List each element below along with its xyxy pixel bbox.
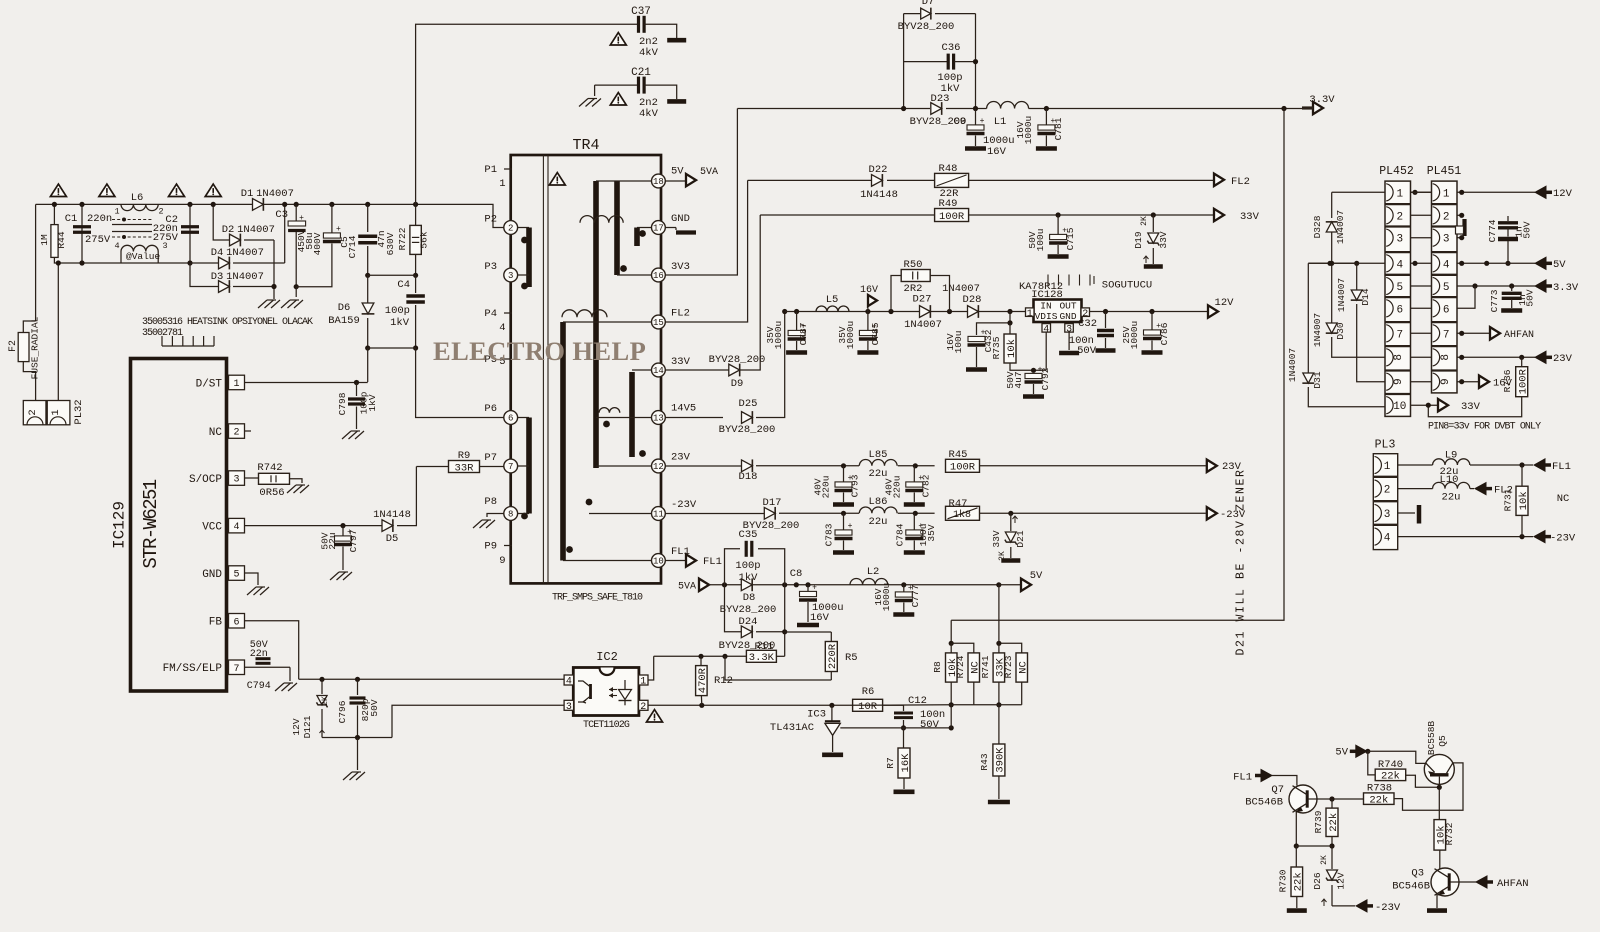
svg-text:OUT: OUT	[1059, 301, 1076, 312]
svg-text:D21 WILL BE -28V ZENER: D21 WILL BE -28V ZENER	[1235, 468, 1248, 655]
svg-text:6: 6	[233, 617, 239, 628]
svg-text:5VA: 5VA	[678, 582, 696, 593]
svg-text:L1: L1	[994, 116, 1007, 128]
svg-text:D6: D6	[338, 302, 351, 314]
svg-text:1N4007: 1N4007	[904, 319, 942, 331]
svg-text:1000u: 1000u	[845, 321, 856, 350]
svg-text:R742: R742	[257, 462, 282, 474]
svg-text:C36: C36	[942, 42, 961, 54]
svg-text:5V: 5V	[1553, 259, 1566, 271]
svg-text:R45: R45	[949, 449, 968, 461]
svg-text:100p: 100p	[385, 305, 410, 317]
svg-text:1N4007: 1N4007	[256, 188, 294, 200]
svg-text:R44: R44	[56, 231, 67, 248]
svg-text:1: 1	[233, 379, 239, 390]
svg-text:C773: C773	[1489, 289, 1500, 312]
svg-text:FL2: FL2	[671, 308, 690, 320]
svg-text:50V: 50V	[920, 719, 940, 731]
svg-text:4kV: 4kV	[639, 47, 659, 59]
svg-text:R48: R48	[939, 163, 958, 175]
svg-text:C3: C3	[275, 209, 288, 221]
svg-text:D24: D24	[739, 616, 758, 628]
svg-text:3: 3	[233, 475, 239, 486]
svg-text:5: 5	[1443, 282, 1450, 294]
svg-text:BYV28_200: BYV28_200	[709, 354, 766, 366]
svg-text:220n: 220n	[87, 213, 112, 225]
svg-text:C792: C792	[1040, 367, 1051, 390]
svg-text:D27: D27	[913, 294, 932, 306]
svg-text:3: 3	[1384, 509, 1391, 521]
svg-text:22u: 22u	[327, 532, 338, 549]
svg-text:9: 9	[1393, 378, 1405, 385]
svg-text:17: 17	[653, 224, 664, 234]
svg-text:VCC: VCC	[202, 521, 222, 533]
svg-text:33V: 33V	[1461, 401, 1481, 413]
svg-text:P6: P6	[484, 403, 497, 415]
svg-text:5VA: 5VA	[700, 167, 718, 178]
svg-text:1: 1	[499, 178, 505, 190]
svg-text:50V: 50V	[1525, 289, 1536, 306]
svg-text:9: 9	[499, 555, 505, 567]
svg-text:C1: C1	[65, 213, 78, 225]
svg-text:D7: D7	[922, 0, 935, 8]
svg-text:10: 10	[653, 557, 664, 567]
svg-text:7: 7	[233, 664, 239, 675]
svg-text:22n: 22n	[250, 649, 268, 660]
svg-text:2: 2	[233, 428, 239, 439]
svg-text:SOGUTUCU: SOGUTUCU	[1102, 280, 1152, 292]
svg-text:2K: 2K	[1140, 216, 1149, 226]
svg-text:220u: 220u	[821, 476, 832, 499]
svg-text:ELECTRO HELP: ELECTRO HELP	[433, 336, 646, 366]
svg-text:4: 4	[114, 241, 119, 251]
svg-text:12V: 12V	[291, 718, 302, 735]
svg-text:D14: D14	[1360, 288, 1371, 305]
svg-text:FB: FB	[209, 617, 223, 629]
svg-text:NC: NC	[1557, 493, 1570, 505]
svg-text:1N4007: 1N4007	[1336, 278, 1347, 312]
svg-text:R732: R732	[1444, 822, 1455, 845]
svg-text:TL431AC: TL431AC	[770, 722, 814, 734]
svg-text:BA159: BA159	[328, 315, 360, 327]
svg-text:+: +	[299, 214, 304, 223]
svg-text:4: 4	[233, 522, 239, 533]
svg-text:11: 11	[653, 510, 664, 520]
svg-text:C794: C794	[247, 681, 271, 692]
svg-text:5V: 5V	[1335, 747, 1348, 759]
svg-text:1kV: 1kV	[367, 394, 378, 411]
svg-text:+: +	[980, 117, 985, 126]
svg-text:1N4007: 1N4007	[226, 247, 264, 259]
svg-text:FUSE_RADIAL: FUSE_RADIAL	[30, 316, 41, 379]
svg-text:D9: D9	[731, 378, 744, 390]
svg-text:1: 1	[1384, 461, 1391, 473]
svg-text:1N4148: 1N4148	[373, 509, 411, 521]
svg-text:2K: 2K	[1320, 855, 1329, 865]
svg-text:L5: L5	[826, 294, 839, 306]
svg-text:R724: R724	[955, 655, 966, 678]
svg-text:C21: C21	[631, 67, 651, 79]
svg-text:2: 2	[158, 207, 163, 217]
svg-text:C796: C796	[337, 700, 348, 723]
svg-text:35V: 35V	[926, 524, 937, 541]
svg-text:16K: 16K	[900, 753, 912, 773]
svg-text:1: 1	[1027, 309, 1033, 320]
svg-text:4: 4	[499, 322, 505, 334]
svg-text:C786: C786	[1159, 322, 1170, 345]
svg-text:3: 3	[508, 271, 513, 281]
svg-text:1: 1	[1443, 188, 1450, 200]
svg-text:GND: GND	[1059, 311, 1076, 322]
svg-text:GND: GND	[671, 213, 690, 225]
svg-text:IC128: IC128	[1031, 289, 1063, 301]
svg-text:R43: R43	[979, 753, 990, 770]
svg-text:GND: GND	[202, 569, 222, 581]
svg-text:R731: R731	[1503, 488, 1514, 511]
svg-text:33V: 33V	[671, 356, 691, 368]
svg-text:C797: C797	[348, 530, 359, 553]
svg-text:R723: R723	[1003, 655, 1014, 678]
svg-text:1: 1	[114, 207, 119, 217]
svg-text:3: 3	[566, 702, 572, 713]
svg-text:Q5: Q5	[1437, 735, 1448, 747]
svg-text:33V: 33V	[991, 530, 1002, 547]
svg-text:6: 6	[1396, 304, 1403, 316]
svg-text:IC2: IC2	[596, 650, 618, 664]
svg-text:-23V: -23V	[1375, 902, 1401, 914]
svg-text:16V: 16V	[810, 612, 830, 624]
svg-text:16: 16	[653, 271, 664, 281]
svg-text:2: 2	[27, 409, 39, 415]
svg-text:R12: R12	[714, 675, 733, 687]
svg-text:D25: D25	[739, 398, 758, 410]
svg-text:R49: R49	[939, 198, 958, 210]
svg-text:D4: D4	[211, 247, 224, 259]
svg-text:35005316 HEATSINK OPSIYONEL OL: 35005316 HEATSINK OPSIYONEL OLACAK	[142, 317, 313, 328]
svg-text:2: 2	[1384, 485, 1391, 497]
svg-text:1k8: 1k8	[953, 509, 971, 521]
svg-text:220R: 220R	[827, 643, 839, 669]
svg-text:L86: L86	[869, 496, 888, 508]
svg-text:NC: NC	[1018, 661, 1030, 674]
svg-text:C4: C4	[397, 279, 410, 291]
svg-text:220u: 220u	[891, 476, 902, 499]
svg-text:D19: D19	[1133, 231, 1144, 248]
svg-text:R8: R8	[932, 661, 943, 673]
svg-text:1000u: 1000u	[881, 583, 892, 612]
svg-text:C8: C8	[790, 568, 803, 580]
svg-text:10: 10	[1393, 401, 1406, 413]
svg-text:C774: C774	[1487, 219, 1498, 242]
svg-text:IC129: IC129	[111, 501, 129, 549]
svg-text:22u: 22u	[1442, 492, 1461, 504]
svg-text:P2: P2	[484, 214, 497, 226]
svg-text:12V: 12V	[1553, 188, 1573, 200]
svg-text:D3: D3	[211, 271, 224, 283]
svg-text:D22: D22	[869, 164, 888, 176]
svg-text:+: +	[848, 522, 853, 531]
svg-text:2: 2	[640, 702, 646, 713]
svg-text:14V5: 14V5	[671, 403, 696, 415]
svg-text:16V: 16V	[987, 146, 1007, 158]
svg-text:400V: 400V	[312, 232, 323, 255]
svg-text:R738: R738	[1367, 783, 1392, 795]
svg-text:FL1: FL1	[1552, 461, 1571, 473]
svg-text:R5: R5	[845, 652, 858, 664]
svg-text:L85: L85	[869, 449, 888, 461]
svg-text:3: 3	[1396, 234, 1403, 246]
svg-text:C787: C787	[798, 323, 809, 346]
svg-text:1N4007: 1N4007	[1312, 313, 1323, 347]
svg-text:FL2: FL2	[1231, 176, 1250, 188]
svg-text:5V: 5V	[671, 166, 684, 178]
svg-text:STR-W6251: STR-W6251	[140, 479, 162, 568]
svg-text:10k: 10k	[1518, 491, 1530, 510]
svg-text:PL452: PL452	[1379, 165, 1414, 178]
svg-text:100R: 100R	[1518, 368, 1530, 394]
svg-text:AHFAN: AHFAN	[1497, 878, 1529, 890]
svg-text:R730: R730	[1278, 869, 1289, 892]
svg-text:D31: D31	[1312, 371, 1323, 388]
svg-text:FM/SS/ELP: FM/SS/ELP	[163, 663, 223, 675]
svg-text:10R: 10R	[858, 701, 878, 713]
svg-text:1: 1	[640, 677, 646, 688]
svg-text:5: 5	[233, 570, 239, 581]
svg-text:1000u: 1000u	[773, 321, 784, 350]
svg-text:L9: L9	[1445, 450, 1458, 462]
svg-text:6: 6	[508, 414, 513, 424]
svg-text:PIN8=33v FOR DVBT ONLY: PIN8=33v FOR DVBT ONLY	[1428, 422, 1541, 433]
svg-text:5V: 5V	[1030, 570, 1043, 582]
svg-text:FL1: FL1	[1233, 772, 1252, 784]
svg-text:18: 18	[653, 177, 664, 187]
svg-text:1N4148: 1N4148	[860, 189, 898, 201]
svg-text:R739: R739	[1313, 810, 1324, 833]
svg-text:-23V: -23V	[671, 499, 697, 511]
svg-text:PL3: PL3	[1375, 439, 1396, 452]
svg-text:1N4007: 1N4007	[226, 271, 264, 283]
svg-text:56k: 56k	[419, 231, 430, 248]
svg-text:13: 13	[653, 414, 664, 424]
svg-text:D2: D2	[222, 224, 235, 236]
svg-text:100R: 100R	[950, 462, 976, 474]
svg-text:PL32: PL32	[73, 399, 85, 424]
svg-text:FL1: FL1	[703, 556, 722, 568]
svg-text:2: 2	[508, 224, 513, 234]
svg-text:33V: 33V	[1158, 231, 1169, 248]
svg-text:7: 7	[1443, 329, 1450, 341]
svg-text:C715: C715	[1065, 227, 1076, 250]
svg-text:+: +	[336, 225, 341, 234]
svg-text:C777: C777	[910, 585, 921, 608]
svg-text:D30: D30	[1335, 322, 1346, 339]
svg-text:BC558B: BC558B	[1426, 721, 1437, 756]
svg-text:D1: D1	[241, 188, 254, 200]
svg-text:D21: D21	[1015, 530, 1026, 547]
svg-text:1000u: 1000u	[1129, 321, 1140, 350]
svg-text:AHFAN: AHFAN	[1504, 330, 1534, 341]
svg-text:4: 4	[1396, 259, 1403, 271]
svg-text:23V: 23V	[671, 452, 691, 464]
svg-text:2: 2	[1443, 211, 1450, 223]
svg-text:L6: L6	[131, 192, 144, 204]
svg-text:D5: D5	[386, 533, 399, 545]
svg-text:33V: 33V	[1240, 211, 1260, 223]
svg-text:12V: 12V	[1215, 297, 1235, 309]
svg-text:50V: 50V	[1522, 221, 1533, 238]
svg-text:4: 4	[1443, 259, 1450, 271]
svg-text:C9: C9	[953, 116, 966, 128]
svg-text:D121: D121	[302, 715, 313, 738]
svg-text:7: 7	[508, 462, 513, 472]
svg-text:VDIS: VDIS	[1035, 311, 1058, 322]
svg-text:NC: NC	[209, 427, 223, 439]
svg-text:D28: D28	[963, 294, 982, 306]
svg-text:R741: R741	[980, 655, 991, 678]
svg-text:R7: R7	[885, 757, 896, 768]
svg-text:22k: 22k	[1369, 794, 1388, 806]
svg-text:100p: 100p	[735, 560, 760, 572]
svg-text:4kV: 4kV	[639, 108, 659, 120]
svg-text:8: 8	[1393, 354, 1405, 361]
svg-text:3.3K: 3.3K	[749, 652, 775, 664]
svg-text:BC546B: BC546B	[1392, 881, 1430, 893]
svg-text:C32: C32	[1078, 318, 1097, 330]
svg-text:Q7: Q7	[1271, 784, 1284, 796]
svg-text:P1: P1	[484, 164, 497, 176]
svg-text:16V: 16V	[1493, 378, 1513, 390]
svg-text:0R56: 0R56	[259, 487, 284, 499]
svg-text:14: 14	[653, 366, 664, 376]
svg-text:C37: C37	[631, 6, 651, 18]
svg-text:9: 9	[1440, 378, 1452, 385]
svg-text:P3: P3	[484, 261, 497, 273]
svg-text:1N4007: 1N4007	[1287, 348, 1298, 382]
svg-text:D8: D8	[743, 592, 756, 604]
svg-text:BYV28_200: BYV28_200	[719, 424, 776, 436]
svg-text:3.3V: 3.3V	[1309, 94, 1335, 106]
svg-text:12V: 12V	[1336, 872, 1347, 889]
svg-text:2: 2	[1396, 211, 1403, 223]
svg-text:D26: D26	[1312, 872, 1323, 889]
svg-text:C782: C782	[920, 474, 931, 497]
svg-text:R722: R722	[397, 227, 408, 250]
svg-text:TR4: TR4	[572, 137, 599, 154]
svg-text:BYV28_200: BYV28_200	[720, 604, 777, 616]
svg-text:R6: R6	[862, 686, 875, 698]
svg-text:C793: C793	[850, 474, 861, 497]
svg-text:8: 8	[508, 510, 513, 520]
svg-text:IN: IN	[1040, 301, 1051, 312]
svg-text:-23V: -23V	[1550, 533, 1576, 545]
svg-text:100R: 100R	[939, 211, 965, 223]
svg-text:R740: R740	[1378, 759, 1403, 771]
svg-text:C714: C714	[347, 235, 358, 258]
svg-text:IC3: IC3	[807, 709, 826, 721]
svg-text:2K: 2K	[321, 696, 330, 706]
svg-text:12: 12	[653, 462, 664, 472]
svg-text:R47: R47	[949, 498, 968, 510]
svg-text:1: 1	[50, 409, 62, 415]
svg-text:BYV28_200: BYV28_200	[898, 21, 955, 33]
svg-text:F2: F2	[8, 340, 19, 352]
svg-text:6: 6	[1443, 304, 1450, 316]
svg-text:22k: 22k	[1293, 872, 1305, 891]
svg-text:@Value: @Value	[126, 251, 161, 262]
svg-text:22u: 22u	[869, 468, 888, 480]
svg-text:4: 4	[1384, 533, 1391, 545]
svg-text:5: 5	[1396, 282, 1403, 294]
svg-text:470R: 470R	[697, 667, 709, 693]
svg-text:22k: 22k	[1381, 771, 1400, 783]
svg-text:22u: 22u	[869, 516, 888, 528]
svg-text:22k: 22k	[1328, 813, 1340, 832]
svg-text:7: 7	[1396, 329, 1403, 341]
svg-text:3.3V: 3.3V	[1553, 282, 1579, 294]
svg-text:R735: R735	[991, 336, 1002, 359]
svg-text:15: 15	[653, 318, 664, 328]
svg-text:C785: C785	[870, 322, 881, 345]
svg-text:C783: C783	[824, 523, 835, 546]
svg-text:L2: L2	[867, 566, 880, 578]
svg-text:C35: C35	[739, 529, 758, 541]
svg-text:D17: D17	[763, 497, 782, 509]
svg-text:275V: 275V	[153, 232, 179, 244]
svg-text:C784: C784	[894, 523, 905, 546]
svg-text:16V: 16V	[860, 285, 878, 296]
svg-text:C798: C798	[337, 392, 348, 415]
svg-text:100u: 100u	[1035, 229, 1046, 252]
svg-text:630V: 630V	[385, 232, 396, 255]
svg-text:3V3: 3V3	[671, 261, 690, 273]
svg-text:50V: 50V	[369, 699, 380, 716]
svg-text:1: 1	[1396, 188, 1403, 200]
svg-text:Q3: Q3	[1411, 868, 1424, 880]
svg-text:P8: P8	[484, 496, 497, 508]
svg-text:D18: D18	[739, 471, 758, 483]
svg-text:D/ST: D/ST	[196, 378, 223, 390]
svg-text:+: +	[812, 584, 817, 593]
svg-text:D23: D23	[931, 93, 950, 105]
svg-text:50V: 50V	[1077, 345, 1097, 357]
svg-text:S/OCP: S/OCP	[189, 474, 222, 486]
svg-text:3: 3	[1443, 234, 1450, 246]
svg-text:D328: D328	[1312, 215, 1323, 238]
svg-text:BC546B: BC546B	[1245, 797, 1283, 809]
svg-text:L10: L10	[1440, 474, 1459, 486]
svg-text:4: 4	[566, 677, 572, 688]
svg-text:10k: 10k	[1006, 339, 1018, 358]
svg-text:P4: P4	[484, 308, 497, 320]
svg-text:C781: C781	[1053, 117, 1064, 140]
svg-text:P9: P9	[484, 541, 497, 553]
svg-text:8: 8	[1440, 354, 1452, 361]
svg-text:4u7: 4u7	[1013, 371, 1024, 388]
svg-text:1N4007: 1N4007	[237, 224, 275, 236]
svg-text:1N4007: 1N4007	[1335, 210, 1346, 244]
svg-text:33R: 33R	[455, 462, 475, 474]
svg-text:1M: 1M	[39, 234, 50, 246]
svg-text:1000u: 1000u	[1023, 116, 1034, 145]
svg-text:R9: R9	[458, 450, 471, 462]
svg-text:2K: 2K	[998, 551, 1007, 561]
svg-text:100u: 100u	[953, 331, 964, 354]
svg-text:TCET1102G: TCET1102G	[583, 720, 630, 731]
svg-text:R50: R50	[904, 259, 923, 271]
svg-text:P7: P7	[484, 452, 497, 464]
svg-text:1kV: 1kV	[390, 317, 410, 329]
svg-text:TRF_SMPS_SAFE_T810: TRF_SMPS_SAFE_T810	[552, 593, 643, 604]
